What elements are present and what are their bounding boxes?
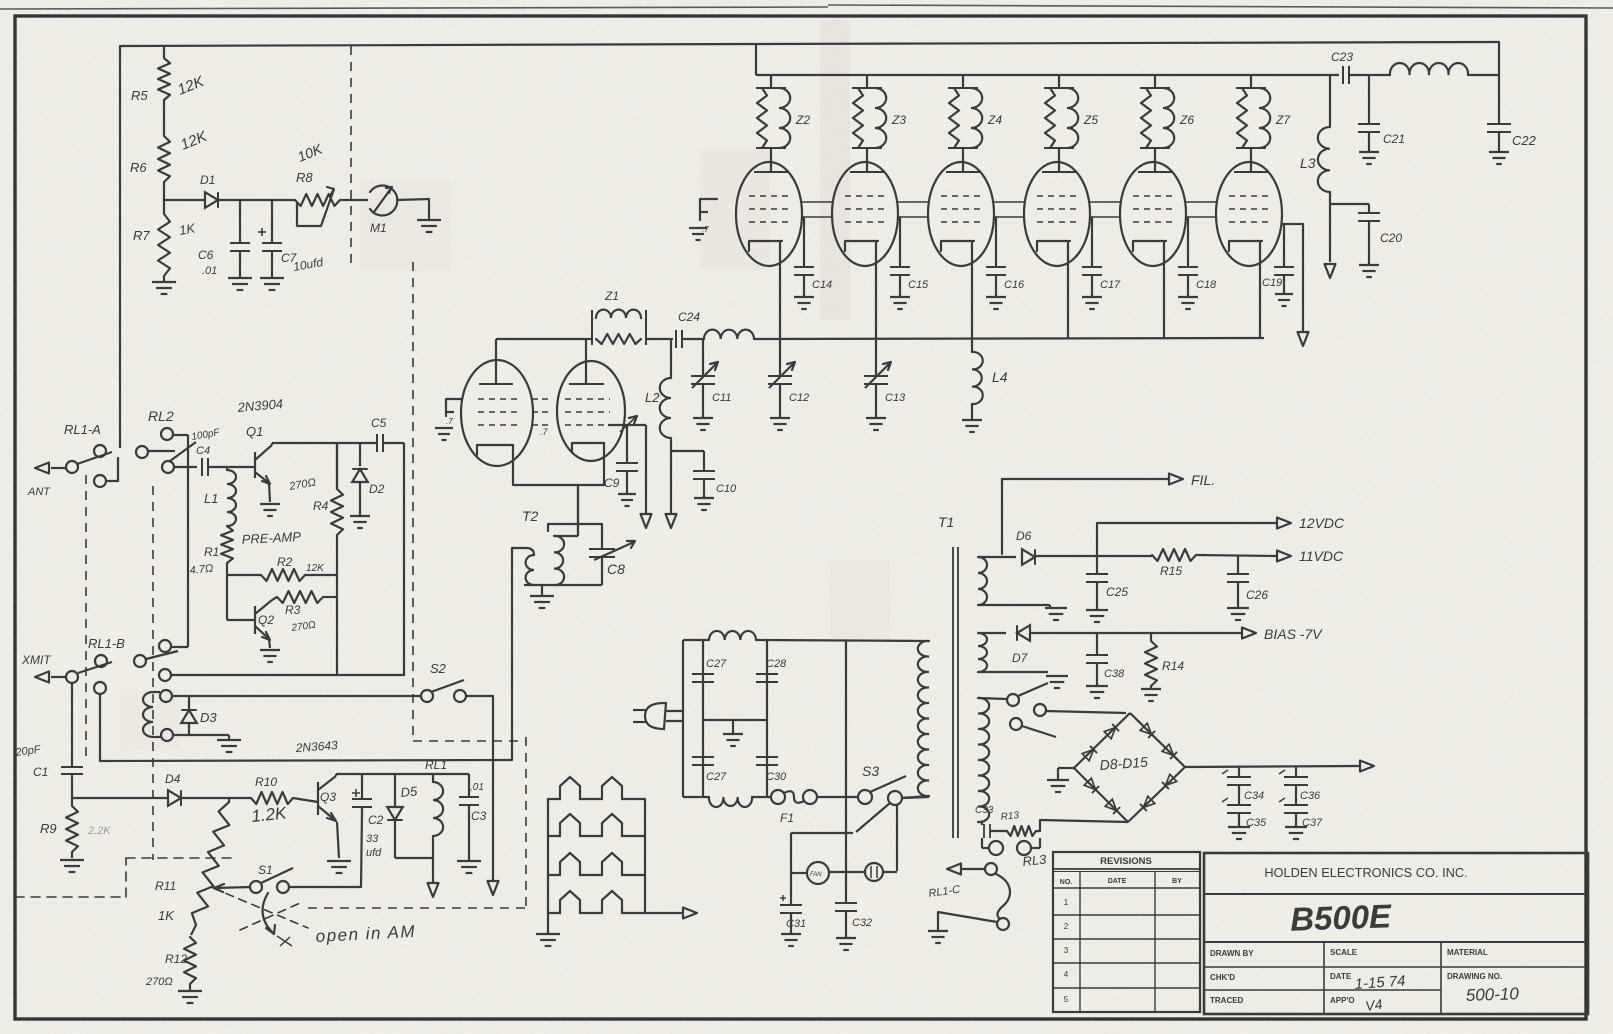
label D6 <box>1016 529 1032 543</box>
wire AC tap vertical <box>845 641 847 903</box>
transformer T2 secondary <box>554 536 564 585</box>
label R15 <box>1160 564 1182 578</box>
label Q3 <box>320 790 336 804</box>
tube V5 plate <box>1042 161 1076 172</box>
label PRE-AMP <box>241 529 301 547</box>
label C34 <box>1244 790 1264 802</box>
wire R8 to M1 <box>340 199 368 201</box>
wire sec1 bottom ground <box>978 605 1050 607</box>
capacitor C15 <box>890 217 910 296</box>
label Q2 <box>258 613 274 627</box>
bridge rectifier D8-D15 edge TL <box>1074 713 1130 768</box>
Z-network Z5 <box>1044 75 1078 161</box>
label 12VDC <box>1299 515 1345 531</box>
dashed bottom-left step <box>15 858 232 897</box>
wire bridge output <box>1185 766 1360 767</box>
ground under R7 <box>152 282 176 294</box>
svg-text:Q1: Q1 <box>246 424 263 439</box>
svg-text:C28: C28 <box>766 658 787 670</box>
label C2 <box>368 813 384 827</box>
capacitor C4 <box>202 458 227 476</box>
capacitor C1 <box>61 764 83 798</box>
wire sec3 bottom <box>978 822 982 825</box>
svg-text:D2: D2 <box>369 482 385 496</box>
label C32 <box>852 917 872 929</box>
wire RL2 bus vertical <box>187 435 189 647</box>
label F1 <box>780 811 794 825</box>
svg-text:PRE-AMP: PRE-AMP <box>241 529 301 547</box>
label C7 value 10ufd <box>292 255 324 274</box>
svg-text:3: 3 <box>1064 946 1069 955</box>
wire S2 right <box>466 695 493 697</box>
wire cathode drop V5 <box>1067 241 1069 338</box>
label R7 value 1K <box>178 220 198 238</box>
capacitor C24 <box>676 330 682 348</box>
capacitor C22 <box>1487 120 1511 151</box>
label M1 <box>370 221 387 235</box>
Z-network Z6 <box>1140 75 1174 161</box>
svg-text:REVISIONS: REVISIONS <box>1100 856 1152 867</box>
relay RL1-A fixed contact <box>136 446 175 458</box>
svg-text:C21: C21 <box>1383 132 1405 146</box>
ground under C22 <box>1489 152 1509 164</box>
label T1 <box>938 514 954 530</box>
label 2N3643 <box>294 738 338 755</box>
relay RL1-B common contact <box>66 671 78 683</box>
wire filter top to T1 <box>756 640 929 641</box>
ground under C12 <box>770 418 790 430</box>
grid link stubs <box>532 399 551 425</box>
wire C5 down to bus <box>403 443 405 676</box>
svg-text:T1: T1 <box>938 514 954 530</box>
tube V7 cathode <box>1229 241 1262 251</box>
relay RL1-C lower contact <box>997 918 1009 930</box>
label Z7 <box>1275 113 1291 127</box>
capacitor C14 <box>794 217 814 296</box>
wire NC contact down and right long <box>100 694 512 761</box>
ground sec2 <box>1046 676 1068 688</box>
label C18 <box>1196 279 1217 291</box>
ground under D2 <box>350 516 370 528</box>
label C30 <box>766 771 787 783</box>
label C8 <box>607 561 625 577</box>
svg-text:,01: ,01 <box>470 782 484 793</box>
capacitor C7 polarized <box>258 200 282 277</box>
label C21 <box>1383 132 1405 146</box>
svg-text:R10: R10 <box>255 775 277 789</box>
wire cathode into T2 <box>554 485 578 536</box>
resistor R9 <box>66 798 78 858</box>
svg-text:R6: R6 <box>130 160 147 175</box>
grid link 3 <box>1090 202 1120 217</box>
tube V7 envelope <box>1216 162 1282 266</box>
wire L3 to C20 <box>1330 203 1369 205</box>
svg-text:D1: D1 <box>200 173 215 187</box>
wire coil to corner <box>1468 74 1499 76</box>
wire cathode drop V3 <box>875 241 877 338</box>
wire D1 to R8 <box>218 199 295 201</box>
svg-text:C30: C30 <box>766 771 787 783</box>
svg-text:C33: C33 <box>975 805 994 816</box>
wire filter mid <box>703 719 767 721</box>
svg-text:C11: C11 <box>712 392 731 404</box>
wire Q1 emitter ground <box>269 483 270 502</box>
label Z4 <box>987 113 1002 127</box>
wire C24 to coil <box>682 338 704 340</box>
relay contact HV C <box>1010 718 1056 737</box>
node wire to D1 <box>164 199 205 201</box>
bridge rectifier D8-D15 edge BL <box>1074 768 1128 822</box>
inductor L4 <box>972 338 983 419</box>
svg-text:C4: C4 <box>196 445 210 457</box>
label C1 <box>33 765 48 779</box>
svg-text:1.2K: 1.2K <box>250 803 287 826</box>
tube V1b plate <box>569 339 604 384</box>
wire filter bottom <box>683 796 709 798</box>
switch S2 <box>421 680 466 702</box>
svg-text:Z1: Z1 <box>604 289 619 303</box>
cathode box <box>513 443 604 485</box>
tube V6 cathode <box>1133 241 1166 251</box>
svg-text:R7: R7 <box>133 228 150 243</box>
resistor R10 <box>251 792 293 804</box>
tube V2 plate <box>754 161 788 172</box>
relay contact HV B <box>1034 704 1126 716</box>
svg-text:T2: T2 <box>522 508 539 524</box>
svg-text:L4: L4 <box>992 369 1008 385</box>
rectifier stack row 1 <box>548 777 645 799</box>
svg-text:TRACED: TRACED <box>1210 996 1244 1005</box>
potentiometer R8 <box>295 187 340 226</box>
wire FIL line <box>1002 479 1169 554</box>
label C12 <box>789 392 809 404</box>
AC plug <box>633 703 666 729</box>
wire bridge left to ground <box>1058 768 1074 779</box>
wire sec1 top to D6 <box>978 556 1016 558</box>
capacitor C8 variable <box>589 541 635 585</box>
capacitor C38 <box>1086 633 1108 685</box>
dashed enclosure right edge <box>525 737 527 909</box>
wire fuse to S3 <box>817 796 858 798</box>
arrow stack output <box>645 908 697 919</box>
ground under C10 <box>694 498 714 510</box>
label Z1 <box>604 289 619 303</box>
svg-text:R11: R11 <box>155 879 176 893</box>
capacitor C19 <box>1274 224 1294 293</box>
capacitor C11 variable <box>691 339 718 417</box>
ground under Q1 <box>260 504 280 516</box>
ground under C31 <box>781 934 801 946</box>
capacitor C30 <box>756 757 778 765</box>
svg-text:C6: C6 <box>198 248 214 262</box>
svg-text:S3: S3 <box>862 763 879 779</box>
switch S3 <box>858 776 906 805</box>
meter M1 <box>370 186 397 216</box>
svg-text:R2: R2 <box>277 555 293 569</box>
label C3 <box>471 809 487 823</box>
label R3 <box>285 603 301 617</box>
wire cathode drop V7 <box>1259 241 1261 338</box>
capacitor C29 <box>692 757 714 765</box>
label R7 <box>133 228 150 243</box>
svg-text:C10: C10 <box>716 483 737 495</box>
ground V2 grid bracket <box>689 228 707 240</box>
label C11 <box>712 392 731 404</box>
svg-text:L2: L2 <box>645 390 660 405</box>
wire Q3 collector top bus <box>336 774 469 776</box>
wire C23 to junction <box>1349 74 1390 76</box>
wire S3 pole2 down <box>896 805 898 871</box>
label R2 <box>277 555 293 569</box>
relay RL1-A lower contact <box>94 458 118 487</box>
svg-text:R3: R3 <box>285 603 301 617</box>
label C4 value 100pF <box>191 427 222 443</box>
label R5 <box>131 88 148 103</box>
svg-text:500-10: 500-10 <box>1465 984 1519 1005</box>
wire plug to filter <box>666 711 683 721</box>
wire RL1-C ground <box>938 912 997 930</box>
wire BIAS line <box>1030 632 1242 634</box>
svg-text:D5: D5 <box>400 784 419 800</box>
svg-text:1-15 74: 1-15 74 <box>1354 972 1406 993</box>
arrow RL1 to ground <box>428 858 439 897</box>
transformer T1 secondary bias <box>978 633 987 672</box>
wire S1 to C2 bottom <box>290 812 362 887</box>
wire filter right vertical <box>766 640 768 797</box>
rectifier stack right rail <box>644 799 646 913</box>
label C13 <box>885 392 906 404</box>
Z-network Z1 <box>592 310 646 345</box>
label R1 value <box>189 563 214 577</box>
diode D4 <box>168 790 181 806</box>
svg-text:C23: C23 <box>1331 50 1353 64</box>
wire 12VDC line <box>1097 523 1277 556</box>
svg-text:4: 4 <box>1064 970 1069 979</box>
wire fan to C31 <box>791 872 846 873</box>
wire D5-RL1-C3 bottom <box>395 857 433 859</box>
svg-text:D3: D3 <box>200 710 217 725</box>
svg-text:12VDC: 12VDC <box>1299 515 1345 531</box>
ground filter mid <box>723 720 743 746</box>
ground C14 <box>794 297 814 309</box>
label Z6 <box>1179 113 1194 127</box>
label C1 value 20pF <box>14 743 43 759</box>
svg-text:C24: C24 <box>678 310 700 324</box>
switch S1 <box>250 868 293 893</box>
capacitor C6 <box>230 200 250 277</box>
svg-text:C16: C16 <box>1004 279 1025 291</box>
label C16 <box>1004 279 1025 291</box>
svg-text:Z4: Z4 <box>987 113 1002 127</box>
tube V5 grids <box>1037 196 1077 222</box>
svg-text:R1: R1 <box>204 545 219 559</box>
label C35 <box>1246 817 1267 829</box>
tube V5 cathode <box>1037 241 1070 251</box>
svg-text:C27: C27 <box>706 771 727 783</box>
capacitor C9 <box>616 416 638 493</box>
label 11VDC <box>1299 548 1344 564</box>
capacitor C3 <box>459 774 479 860</box>
inductor L3 <box>1318 75 1330 262</box>
arrow V7 grid ground <box>1298 332 1309 346</box>
svg-text:C9: C9 <box>604 476 620 490</box>
rectifier stack left rail <box>547 799 549 933</box>
wire M1 to ground <box>397 199 429 219</box>
svg-text:C3: C3 <box>471 809 487 823</box>
wiper arrow into R11 <box>214 884 250 892</box>
arrow L3 ground <box>1325 264 1336 278</box>
svg-text:APP'O: APP'O <box>1330 996 1355 1005</box>
wire XMIT common down to C1 <box>71 683 73 764</box>
ground grid bracket <box>435 428 453 440</box>
tube V3 envelope <box>832 162 898 266</box>
dashed S1 linkage <box>213 888 308 930</box>
svg-text:11VDC: 11VDC <box>1299 548 1344 564</box>
wire cathode drop V6 <box>1163 241 1165 338</box>
label C2 value ufd <box>366 847 382 859</box>
resistor R15 <box>1152 549 1196 561</box>
label R10 value 1.2K <box>250 803 287 826</box>
capacitor C27 <box>692 674 714 682</box>
tube V7 plate <box>1234 161 1268 172</box>
relay RL2 coil <box>143 692 161 737</box>
capacitor C10 <box>693 451 715 497</box>
relay contact to bus <box>159 640 188 652</box>
relay RL2 upper contact <box>161 428 188 440</box>
label L3 <box>1300 155 1316 171</box>
tube V1b cathode <box>572 443 604 452</box>
tube V7 grids <box>1229 196 1269 222</box>
label RL1-C <box>928 884 961 900</box>
capacitor C28 <box>756 674 778 682</box>
capacitor C32 <box>835 903 857 937</box>
label RL1-A <box>64 422 101 437</box>
wire T1 primary bottom <box>902 796 929 798</box>
wire R1 to Q2 <box>227 563 255 620</box>
svg-text:Z5: Z5 <box>1083 113 1098 127</box>
scan smudge 1 <box>820 20 850 320</box>
capacitor C16 <box>986 217 1006 296</box>
svg-text:M1: M1 <box>370 221 387 235</box>
capacitor C36 polarized <box>1279 766 1308 805</box>
svg-text:L3: L3 <box>1300 155 1316 171</box>
transformer T1 secondary HV <box>978 698 989 822</box>
svg-text:R9: R9 <box>40 821 57 836</box>
wire B+ riser to plate bus <box>755 44 757 75</box>
wire C4 to Q1 base <box>227 466 255 468</box>
ground C19 <box>1275 294 1293 306</box>
svg-text:V4: V4 <box>1364 996 1383 1014</box>
ground sec1 <box>1045 608 1067 620</box>
label C28 <box>766 658 787 670</box>
Z-network Z4 <box>948 75 982 161</box>
label C10 <box>716 483 737 495</box>
ground rectifier stack <box>536 934 560 946</box>
wire B+ top bus <box>120 42 1499 46</box>
svg-text:C13: C13 <box>885 392 906 404</box>
arrow FIL <box>1169 474 1183 485</box>
ground C17 <box>1082 297 1102 309</box>
svg-text:RL3: RL3 <box>1022 851 1048 868</box>
ground right of M1 <box>417 220 441 232</box>
transistor Q3 <box>318 776 336 821</box>
svg-text:Q2: Q2 <box>258 613 274 627</box>
label T2 <box>522 508 539 524</box>
svg-text:R8: R8 <box>296 170 313 185</box>
svg-text:Z2: Z2 <box>795 113 810 127</box>
wire coil to fuse <box>752 796 771 798</box>
label C26 <box>1246 588 1268 602</box>
label RL1 <box>425 758 447 772</box>
svg-text:C31: C31 <box>786 918 806 930</box>
label C9 <box>604 476 620 490</box>
label S3 <box>862 763 879 779</box>
scan smudge 2 <box>700 150 770 270</box>
label R11 <box>155 879 176 893</box>
dashed preamp box left edge <box>152 486 154 860</box>
dashed partition line B <box>412 262 414 741</box>
svg-text:D4: D4 <box>165 772 181 786</box>
svg-text:BIAS -7V: BIAS -7V <box>1264 626 1323 642</box>
label S2 <box>430 661 447 676</box>
wire cathode to T2 <box>577 485 579 536</box>
wire lamp connections <box>846 871 897 873</box>
dashed enclosure left edge <box>85 475 87 756</box>
wire plate bus y75 <box>756 74 1339 76</box>
label C19 <box>1262 277 1282 289</box>
ground under C13 <box>866 418 886 430</box>
relay contact bottom bus <box>159 669 171 681</box>
ground RL1-C <box>928 931 948 943</box>
fuse F1 <box>771 790 817 804</box>
relay RL1-A blade <box>77 452 112 464</box>
wire D6 to 11VDC <box>1035 555 1152 557</box>
svg-text:Q3: Q3 <box>320 790 336 804</box>
svg-text:RL1-A: RL1-A <box>64 422 101 437</box>
wire R10 to Q3 <box>293 798 318 802</box>
potentiometer R11 <box>191 798 229 935</box>
label R8 <box>296 170 313 185</box>
resistor R1 <box>221 526 233 563</box>
grid link 0 <box>802 202 832 217</box>
inductor filter bottom coil <box>709 797 752 807</box>
transformer T2 top bracket <box>548 524 602 549</box>
svg-text:C12: C12 <box>789 392 809 404</box>
label R6 <box>130 160 147 175</box>
capacitor C31 polarized <box>780 833 802 933</box>
wire L2 to C10 <box>671 450 704 452</box>
tube V4 plate <box>946 161 980 172</box>
svg-text:Z7: Z7 <box>1275 113 1291 127</box>
label C38 <box>1104 668 1125 680</box>
svg-text:C15: C15 <box>908 279 929 291</box>
label C36 <box>1300 790 1321 802</box>
resistor R4 <box>331 443 343 575</box>
label D8-D15 <box>1099 754 1148 773</box>
wire sec2 top to D7 <box>978 632 1006 634</box>
label R5 value 12K <box>175 73 207 99</box>
relay RL1 coil <box>433 774 443 858</box>
scan smudge 5 <box>120 690 180 750</box>
svg-text:BY: BY <box>1172 878 1182 885</box>
relay RL1-B blade <box>78 662 112 673</box>
label C31 <box>786 918 806 930</box>
svg-text:NO.: NO. <box>1060 879 1073 886</box>
svg-text:DATE: DATE <box>1330 972 1352 981</box>
label R8 value 10K <box>295 140 325 164</box>
arrow RL1-C <box>947 864 984 875</box>
svg-text:C36: C36 <box>1300 790 1321 802</box>
